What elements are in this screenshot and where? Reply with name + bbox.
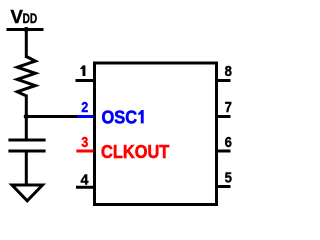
svg-text:OSC: OSC bbox=[102, 107, 138, 128]
power rail bar VDD bbox=[7, 28, 44, 31]
svg-text:CLKOUT: CLKOUT bbox=[101, 141, 170, 162]
svg-text:5: 5 bbox=[225, 171, 232, 187]
wire: capacitor to ground bbox=[25, 151, 28, 186]
svg-text:4: 4 bbox=[81, 172, 89, 188]
IC U1 (8-pin DIP body) bbox=[95, 63, 217, 205]
pin 2 stub (blue) bbox=[77, 115, 96, 118]
resistor R1 bbox=[17, 57, 35, 96]
pin 7 stub bbox=[216, 115, 231, 118]
wire: node A down to capacitor bbox=[25, 115, 28, 140]
pin 5 stub bbox=[216, 185, 231, 188]
pin 1 number bbox=[80, 65, 85, 76]
svg-text:V: V bbox=[11, 6, 24, 27]
VDD label bbox=[11, 6, 38, 27]
svg-text:3: 3 bbox=[81, 135, 88, 151]
wire: VDD bar down to resistor bbox=[25, 30, 28, 59]
pin 1 stub bbox=[76, 79, 95, 82]
capacitor C1 bbox=[8, 140, 45, 151]
wire: node A right to OSC1 pin bbox=[26, 115, 79, 118]
svg-text:7: 7 bbox=[225, 100, 232, 116]
pin 3 stub (red) bbox=[76, 150, 93, 153]
pin 4 stub bbox=[76, 186, 95, 189]
pin 8 stub bbox=[216, 79, 231, 82]
svg-text:DD: DD bbox=[23, 11, 38, 26]
node A junction dot bbox=[24, 114, 29, 119]
svg-text:6: 6 bbox=[225, 135, 232, 151]
net label OSC1 (pin 2) bbox=[102, 107, 144, 128]
pin 6 stub bbox=[216, 150, 231, 153]
node: VDD junction dot bbox=[24, 27, 29, 32]
ground bbox=[12, 185, 43, 201]
svg-text:8: 8 bbox=[225, 64, 232, 80]
wire: resistor to node A bbox=[25, 95, 28, 119]
svg-text:2: 2 bbox=[81, 100, 88, 116]
